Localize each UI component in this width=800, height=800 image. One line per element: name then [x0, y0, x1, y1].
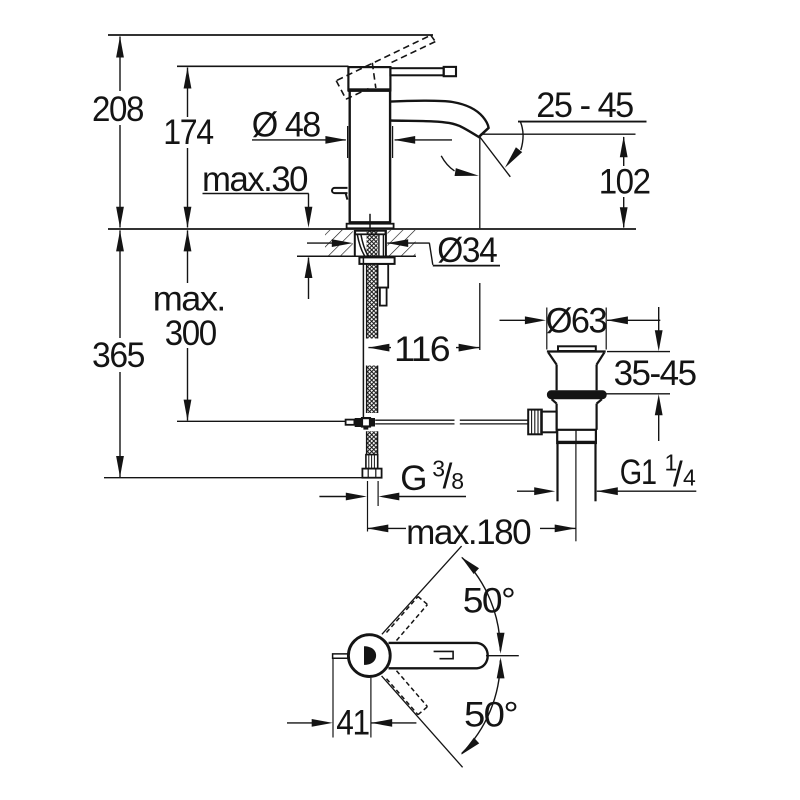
stream angle curved arrow right — [521, 122, 524, 150]
shank washer — [355, 231, 385, 235]
lever rod end — [444, 67, 456, 76]
hose curve below deck — [357, 235, 365, 257]
stream angle curved arrow left — [441, 156, 454, 171]
top view: spout stub — [333, 654, 349, 658]
dimension G1 1/4 — [517, 449, 696, 495]
365 bottom reference line — [104, 477, 368, 479]
hose threaded end — [366, 455, 378, 469]
dimension 174 — [163, 68, 213, 228]
handle-top reference line (174) — [177, 65, 349, 67]
svg-text:Ø 48: Ø 48 — [252, 105, 320, 144]
pull rod tube — [378, 234, 380, 256]
lower 50 degree arc — [462, 660, 501, 753]
drain side outlet — [541, 412, 556, 433]
dimension 41 — [287, 659, 416, 743]
dimension max.30 leader — [202, 160, 312, 299]
svg-text:208: 208 — [92, 90, 143, 129]
dimension Ø48 — [252, 105, 452, 158]
svg-text:365: 365 — [92, 336, 144, 375]
dimension Ø34 — [307, 231, 500, 270]
svg-text:35-45: 35-45 — [614, 354, 696, 393]
drain coupling ring — [557, 430, 596, 443]
top view: lower swing center line — [382, 676, 463, 767]
drain body sides — [555, 404, 557, 430]
dimension max.300 — [153, 230, 225, 420]
pop-up pull rod vertical — [362, 257, 364, 418]
drain neck sides — [555, 365, 557, 391]
top view: lever slot — [434, 651, 454, 658]
drain center line — [575, 443, 577, 541]
shank through counter — [354, 230, 356, 257]
max.300 bottom reference line — [177, 420, 346, 422]
spout outlet level reference line — [480, 133, 635, 135]
dashed lever (raised position) — [336, 35, 435, 99]
svg-text:4: 4 — [683, 464, 696, 490]
drain tailpipe — [556, 443, 558, 501]
drain flange top — [547, 350, 606, 352]
horizontal pop-up rod to drain — [375, 420, 528, 424]
top view: faucet body circle — [348, 635, 390, 677]
svg-text:50°: 50° — [463, 582, 515, 621]
svg-text:G: G — [400, 459, 426, 498]
svg-text:Ø34: Ø34 — [437, 231, 497, 270]
svg-text:max.180: max.180 — [406, 513, 531, 552]
svg-text:174: 174 — [163, 113, 213, 152]
top view: dashed lever upper position — [387, 597, 428, 641]
drain flange sides — [548, 353, 556, 365]
counter top line — [108, 228, 636, 230]
svg-text:G1: G1 — [620, 453, 656, 492]
dimension 25 - 45 — [518, 86, 647, 125]
base flange — [347, 224, 394, 229]
svg-text:25 - 45: 25 - 45 — [536, 86, 633, 125]
dimension 116 (spout reach) — [368, 330, 479, 369]
counter hatch left block — [325, 230, 353, 256]
dimension 35-45 — [607, 307, 696, 441]
top view: upper swing center line — [382, 546, 462, 634]
faucet lever cap — [348, 67, 390, 90]
stream direction line — [480, 137, 510, 177]
upper 50 degree arc — [462, 558, 500, 651]
body bottom edge — [349, 221, 392, 224]
drain seal ring — [547, 390, 607, 399]
lever rod — [390, 68, 443, 75]
svg-text:116: 116 — [394, 330, 449, 369]
dimension Ø63 — [500, 302, 661, 350]
top view: lever — [389, 643, 488, 668]
svg-text:41: 41 — [336, 704, 369, 743]
pop-up pull knob — [332, 188, 348, 193]
rod coupling at faucet — [346, 418, 375, 430]
top view: center line right — [486, 655, 519, 657]
svg-text:8: 8 — [451, 468, 463, 494]
dimension max.180 — [367, 513, 575, 552]
connection block lower — [380, 288, 387, 306]
dimension 208 — [92, 37, 143, 228]
top view: dashed lever lower position — [387, 671, 428, 715]
drain pop-up plug cap — [558, 346, 596, 351]
svg-text:max.: max. — [153, 280, 225, 319]
svg-text:102: 102 — [599, 162, 650, 201]
svg-text:Ø63: Ø63 — [546, 302, 607, 341]
dimension 365 — [92, 230, 144, 477]
lever cap dark band — [348, 88, 391, 92]
spout tip face — [479, 128, 489, 137]
counter underside line — [297, 255, 416, 257]
drain body taper — [552, 399, 557, 403]
dimension 102 — [599, 136, 650, 228]
counter hatch right block — [387, 230, 415, 256]
spout tip extension line (116 right) — [479, 137, 481, 228]
dimension G 3/8 — [319, 456, 466, 532]
top reference line (lever max height) — [108, 34, 433, 36]
faucet body — [349, 91, 351, 222]
body center line — [369, 214, 371, 229]
spout — [390, 101, 488, 137]
connection block — [378, 264, 389, 288]
knurled adjuster nut — [528, 410, 542, 435]
hose nut G3/8 — [362, 469, 381, 478]
svg-text:50°: 50° — [464, 695, 517, 734]
top view: indicator dot — [364, 646, 376, 665]
supply hose (braided) segment 1 — [367, 230, 378, 455]
svg-text:300: 300 — [165, 314, 217, 353]
mounting nut — [359, 257, 394, 264]
